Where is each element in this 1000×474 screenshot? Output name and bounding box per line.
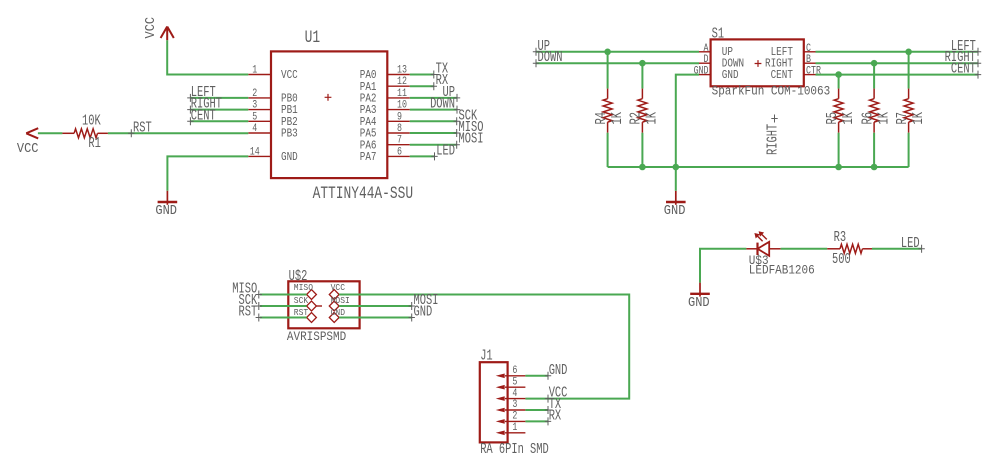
- wire U1 pin 14 to GND: [167, 156, 248, 190]
- wire VCC to U1 pin 1: [167, 40, 248, 74]
- svg-text:GND: GND: [722, 69, 739, 82]
- svg-text:RA 6PIn SMD: RA 6PIn SMD: [480, 442, 549, 458]
- DOWN label origin tick: [533, 59, 539, 67]
- svg-text:CENT: CENT: [771, 69, 793, 82]
- junction dot bus/GND drop: [673, 164, 680, 171]
- svg-text:RIGHT: RIGHT: [765, 123, 781, 155]
- label origin tick MOSI: [454, 141, 460, 149]
- U$2 pad GND: [329, 313, 339, 323]
- UP label origin tick: [533, 48, 539, 56]
- wire R6 bottom to bus: [873, 133, 875, 167]
- svg-text:ATTINY44A-SSU: ATTINY44A-SSU: [313, 183, 413, 204]
- svg-text:CENT: CENT: [191, 108, 216, 124]
- svg-text:DOWN: DOWN: [430, 96, 455, 112]
- svg-text:GND: GND: [155, 202, 177, 218]
- wire VCC arrow to R1: [38, 132, 63, 134]
- U1 pin 14 (GND) stub: [248, 155, 271, 157]
- wire R7 top connection: [908, 52, 910, 89]
- svg-text:PB3: PB3: [281, 128, 298, 141]
- junction dot bus/R6: [871, 164, 878, 171]
- resistor R1 10K: [62, 132, 74, 134]
- svg-text:4: 4: [252, 122, 257, 134]
- wire R6 top connection: [873, 63, 875, 88]
- resistor R4 1K: [607, 89, 609, 99]
- programming header U$2 AVRISPSMD body: [288, 281, 359, 328]
- MISO label origin tick: [256, 291, 262, 299]
- resistor R5 1K: [838, 89, 840, 99]
- wire net RX from U1: [410, 85, 434, 87]
- svg-text:VCC: VCC: [281, 69, 298, 82]
- svg-text:R2: R2: [628, 112, 644, 124]
- ground bus wire: [608, 166, 909, 168]
- svg-text:1K: 1K: [609, 112, 625, 125]
- S1 origin cross: [755, 60, 762, 67]
- LED emission arrows: [757, 233, 767, 241]
- junction dot bus/R5: [835, 164, 842, 171]
- svg-text:14: 14: [250, 145, 260, 157]
- U1 pin 1 (VCC) stub: [248, 74, 271, 76]
- svg-text:S1: S1: [712, 26, 724, 42]
- svg-text:VCC: VCC: [142, 17, 158, 39]
- U$2 pad SCK: [307, 301, 317, 311]
- J1 pin 5 stub and arrow: [505, 386, 525, 388]
- wire net RST from R1 to U1 pin 4: [108, 132, 248, 134]
- svg-text:1K: 1K: [876, 112, 892, 125]
- switch S1 body: [711, 39, 804, 86]
- junction dot bus/R2: [639, 164, 646, 171]
- S1 pin D stub (left): [699, 62, 711, 64]
- U1 pin 3 (PB1) stub: [248, 109, 271, 111]
- label origin tick SCK: [454, 117, 460, 125]
- svg-text:MOSI: MOSI: [459, 131, 484, 147]
- wire net TX from U1: [410, 74, 434, 76]
- wire R5 top connection: [838, 75, 840, 89]
- svg-text:U1: U1: [305, 27, 320, 48]
- U$2 pad MOSI: [329, 301, 339, 311]
- U1 pin 10 (PA3) stub: [387, 109, 410, 111]
- resistor R6 1K: [873, 89, 875, 99]
- power symbol VCC (top): [161, 27, 174, 41]
- RX label origin tick: [545, 417, 551, 425]
- wire net RST to U$2: [260, 317, 307, 319]
- svg-text:AVRISPSMD: AVRISPSMD: [287, 329, 346, 344]
- wire ground to LED: [700, 249, 746, 283]
- GND label origin tick: [409, 314, 415, 322]
- LEFT label origin tick: [975, 48, 981, 56]
- ground symbol GND (S1 section): [675, 191, 677, 205]
- svg-text:VCC: VCC: [17, 140, 39, 156]
- svg-text:1K: 1K: [910, 112, 926, 125]
- wire R4 top connection: [607, 52, 609, 89]
- svg-text:PA7: PA7: [360, 151, 377, 164]
- U$2 pad VCC: [329, 290, 339, 300]
- junction dot R7/LEFT: [905, 49, 912, 56]
- label origin tick LEFT: [187, 94, 193, 102]
- wire net MOSI from U$2: [339, 305, 412, 307]
- wire net SCK to U$2: [260, 305, 307, 307]
- svg-text:11: 11: [397, 87, 407, 99]
- wire net MISO to U$2: [260, 294, 307, 296]
- wire net RX from J1: [525, 420, 548, 422]
- svg-text:1K: 1K: [840, 112, 856, 125]
- U1 pin 5 (PB2) stub: [248, 120, 271, 122]
- svg-text:7: 7: [397, 134, 402, 146]
- svg-text:GND: GND: [688, 294, 710, 310]
- label origin tick MISO: [454, 129, 460, 137]
- svg-text:8: 8: [397, 122, 402, 134]
- U1 origin cross: [325, 94, 332, 101]
- svg-text:R7: R7: [894, 112, 910, 124]
- U1 pin 2 (PB0) stub: [248, 97, 271, 99]
- wire bus to ground: [675, 167, 677, 191]
- wire net DOWN from U1: [410, 109, 457, 111]
- svg-text:5: 5: [252, 110, 257, 122]
- svg-text:MOSI: MOSI: [331, 295, 350, 306]
- svg-text:R3: R3: [834, 229, 846, 245]
- label origin tick RIGHT: [187, 106, 193, 114]
- svg-text:RST: RST: [238, 304, 257, 320]
- svg-text:1K: 1K: [644, 112, 660, 125]
- svg-text:9: 9: [397, 110, 402, 122]
- TX label origin tick: [545, 406, 551, 414]
- wire net LEFT from S1 pin C: [816, 51, 979, 53]
- wire net MISO from U1: [410, 132, 457, 134]
- J1 pin 3 stub and arrow: [505, 409, 525, 411]
- LED U$3 LEDFAB1206 symbol: [746, 248, 757, 250]
- IC U1 ATTINY44A-SSU body: [271, 51, 387, 178]
- junction dot R6/RIGHT: [871, 60, 878, 67]
- wire net SCK from U1: [410, 120, 457, 122]
- S1 pin CTR stub (right): [804, 74, 816, 76]
- wire net CENT to U1: [190, 120, 248, 122]
- wire net GND from U$2: [339, 317, 412, 319]
- svg-text:GND: GND: [414, 304, 433, 320]
- wire U$2 VCC to J1 VCC (long): [339, 295, 629, 399]
- S1 pin A stub (left): [699, 51, 711, 53]
- wire R2 bottom to bus: [641, 133, 643, 167]
- J1 pin 4 stub and arrow: [505, 398, 525, 400]
- SCK label origin tick: [256, 302, 262, 310]
- svg-text:GND: GND: [549, 362, 568, 378]
- U1 pin 8 (PA5) stub: [387, 132, 410, 134]
- GND label origin tick: [545, 372, 551, 380]
- label origin tick UP: [454, 94, 460, 102]
- svg-text:DOWN: DOWN: [538, 50, 563, 66]
- resistor R2 1K: [641, 89, 643, 99]
- J1 pin 6 stub and arrow: [505, 375, 525, 377]
- U1 pin 4 (PB3) stub: [248, 132, 271, 134]
- svg-text:J1: J1: [480, 348, 492, 364]
- S1 pin C stub (right): [804, 51, 816, 53]
- wire net GND from J1: [525, 375, 548, 377]
- svg-text:SCK: SCK: [294, 295, 309, 306]
- svg-text:1: 1: [252, 63, 257, 75]
- wire S1 GND pin to ground bus: [676, 75, 699, 167]
- wire net LED from U1: [410, 155, 435, 157]
- wire net CENT from S1 pin CTR: [816, 74, 979, 76]
- svg-text:R5: R5: [824, 112, 840, 124]
- resistor R3 500: [827, 248, 840, 250]
- wire R2 top connection: [641, 63, 643, 88]
- ground symbol GND (LED section): [699, 283, 701, 297]
- J1 pin 1 stub and arrow: [505, 432, 525, 434]
- svg-text:MISO: MISO: [294, 282, 313, 293]
- wire net LEFT to U1: [190, 97, 248, 99]
- svg-text:12: 12: [397, 75, 407, 87]
- U1 pin 6 (PA7) stub: [387, 155, 410, 157]
- RIGHT rotated label origin tick: [771, 115, 777, 123]
- svg-text:LED: LED: [436, 143, 455, 159]
- label origin tick TX: [431, 71, 437, 79]
- svg-text:VCC: VCC: [331, 282, 345, 293]
- wire R5 bottom to bus: [838, 133, 840, 167]
- RST label origin tick: [128, 129, 134, 137]
- U$2 pad RST: [307, 313, 317, 323]
- svg-text:10K: 10K: [82, 113, 101, 129]
- svg-text:10: 10: [397, 99, 407, 111]
- label origin tick DOWN: [454, 106, 460, 114]
- wire net MOSI from U1: [410, 144, 457, 146]
- U1 pin 11 (PA2) stub: [387, 97, 410, 99]
- wire R7 bottom to bus: [908, 133, 910, 167]
- svg-text:R4: R4: [593, 112, 609, 124]
- ground symbol GND (below U1): [166, 191, 168, 205]
- wire net LED from R3: [872, 248, 922, 250]
- svg-text:R1: R1: [88, 135, 100, 151]
- svg-text:2: 2: [252, 87, 257, 99]
- svg-text:3: 3: [252, 99, 257, 111]
- svg-text:GND: GND: [281, 151, 298, 164]
- svg-text:500: 500: [832, 252, 851, 268]
- U1 pin 9 (PA4) stub: [387, 120, 410, 122]
- svg-text:13: 13: [397, 63, 407, 75]
- wire LED to R3: [781, 248, 828, 250]
- wire net TX from J1: [525, 409, 548, 411]
- S1 pin GND stub (left): [699, 74, 711, 76]
- VCC label origin tick: [545, 395, 551, 403]
- junction dot R2/DOWN: [639, 60, 646, 67]
- MOSI label origin tick: [409, 302, 415, 310]
- wire net UP to S1 pin A: [536, 51, 700, 53]
- CENT label origin tick: [975, 71, 981, 79]
- wire net DOWN to S1 pin D: [536, 62, 700, 64]
- label origin tick LED: [431, 152, 437, 160]
- wire R4 bottom to bus: [607, 133, 609, 167]
- S1 pin B stub (right): [804, 62, 816, 64]
- power symbol VCC (left arrow): [26, 128, 38, 138]
- svg-text:LED: LED: [901, 235, 920, 251]
- wire net UP from U1: [410, 97, 457, 99]
- U1 pin 12 (PA1) stub: [387, 85, 410, 87]
- label origin tick RX: [431, 82, 437, 90]
- svg-text:SparkFun COM-10063: SparkFun COM-10063: [712, 84, 831, 99]
- label origin tick CENT: [187, 117, 193, 125]
- svg-text:GND: GND: [664, 202, 686, 218]
- wire net RIGHT from S1 pin B: [816, 62, 979, 64]
- svg-text:1: 1: [512, 421, 517, 433]
- LED label origin tick: [918, 245, 924, 253]
- junction dot R5/CENT: [835, 71, 842, 78]
- junction dot R4/UP: [604, 49, 611, 56]
- RIGHT label origin tick: [975, 59, 981, 67]
- svg-text:6: 6: [397, 145, 402, 157]
- resistor R7 1K: [908, 89, 910, 99]
- svg-text:R6: R6: [860, 112, 876, 124]
- U$2 origin stub: [316, 305, 322, 307]
- svg-text:RST: RST: [133, 120, 152, 136]
- svg-text:LEDFAB1206: LEDFAB1206: [749, 263, 815, 278]
- U1 pin 13 (PA0) stub: [387, 74, 410, 76]
- wire net RIGHT to U1: [190, 109, 248, 111]
- RST label origin tick: [256, 314, 262, 322]
- U1 pin 7 (PA6) stub: [387, 144, 410, 146]
- svg-text:CENT: CENT: [951, 61, 976, 77]
- J1 pin 2 stub and arrow: [505, 420, 525, 422]
- U$2 pad MISO: [307, 290, 317, 300]
- connector J1 body: [480, 362, 508, 442]
